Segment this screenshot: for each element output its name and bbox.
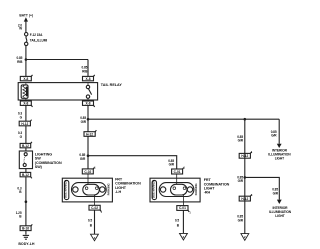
svg-text:B-16: B-16 xyxy=(22,227,29,231)
wire fuse to junction xyxy=(25,46,27,77)
svg-text:G/R: G/R xyxy=(273,191,279,195)
connector X-8 bottom-right xyxy=(83,101,94,105)
svg-text:G/R: G/R xyxy=(238,139,244,143)
svg-text:SIDE MARKER: SIDE MARKER xyxy=(151,180,155,198)
wire to ground RH light xyxy=(182,210,184,233)
connector X-8 top-left xyxy=(20,76,31,80)
svg-text:H-12: H-12 xyxy=(21,122,28,126)
wire branch to RH light xyxy=(88,156,177,169)
wire right corner down to arrow 1 xyxy=(278,119,280,144)
ground triangle LH light xyxy=(91,234,99,241)
ground BODY-LH xyxy=(25,231,27,235)
connector C-01 top xyxy=(172,169,183,174)
svg-text:LIGHT: LIGHT xyxy=(275,156,284,160)
relay switch xyxy=(86,85,89,88)
connector C-02 top xyxy=(82,169,93,174)
fuse F-12 xyxy=(25,33,28,36)
svg-text:R/B: R/B xyxy=(17,60,23,64)
wire B-12 to B-16 with junction xyxy=(25,177,27,226)
connector B-12 lower xyxy=(20,172,31,176)
ground triangle RH light xyxy=(180,233,188,240)
svg-text:X-8: X-8 xyxy=(86,102,91,106)
connector H-12 left xyxy=(19,121,30,126)
connector H-12 middle xyxy=(84,132,95,137)
wire X-8 br down to H-12 xyxy=(87,105,89,131)
connector C-02 bottom xyxy=(89,205,100,210)
svg-text:PARKING: PARKING xyxy=(106,183,110,195)
svg-text:BATT (+): BATT (+) xyxy=(19,13,33,17)
connector H-12 right upper xyxy=(239,153,250,158)
svg-text:X-8: X-8 xyxy=(86,77,91,81)
arrow interior illumination 1 xyxy=(277,144,282,148)
svg-text:G/R: G/R xyxy=(81,120,87,124)
wire switch to B-12 lower xyxy=(25,169,27,173)
svg-text:TAIL RELAY: TAIL RELAY xyxy=(101,83,123,87)
wire relay to H-12 (left) xyxy=(25,105,27,121)
node BATT(+) arrow xyxy=(24,17,28,21)
svg-text:SW): SW) xyxy=(35,165,43,169)
svg-text:H-12: H-12 xyxy=(241,197,248,201)
ground triangle right column xyxy=(241,234,249,241)
svg-text:C-02: C-02 xyxy=(91,206,98,210)
wire to ground LH light xyxy=(94,210,96,234)
connector B-16 xyxy=(20,226,31,231)
relay TAIL RELAY box xyxy=(18,83,97,100)
lamp FRT COMBINATION LIGHT RH box xyxy=(150,178,200,202)
wire B-12 to switch xyxy=(25,148,27,151)
svg-text:B-12: B-12 xyxy=(22,173,29,177)
node junction dot right column xyxy=(244,118,247,121)
svg-text:LIGHT: LIGHT xyxy=(275,214,284,218)
wire RH label branch xyxy=(176,168,178,170)
svg-text:-LH: -LH xyxy=(115,190,121,194)
node junction dot left xyxy=(25,200,28,203)
svg-text:G/R: G/R xyxy=(169,163,175,167)
wire long horizontal feed y=119 xyxy=(88,118,279,120)
svg-text:R/B: R/B xyxy=(82,69,88,73)
svg-text:B-12: B-12 xyxy=(22,144,29,148)
wire drop to X-8 top right xyxy=(87,60,89,77)
svg-text:0.5: 0.5 xyxy=(88,218,92,222)
svg-text:G/R: G/R xyxy=(271,134,277,138)
svg-text:W: W xyxy=(19,26,22,30)
svg-text:4: 4 xyxy=(183,235,185,239)
lamp FRT COMBINATION LIGHT LH box xyxy=(62,178,112,202)
svg-text:C-01: C-01 xyxy=(174,170,181,174)
svg-text:H-12: H-12 xyxy=(241,154,248,158)
svg-text:0.5: 0.5 xyxy=(175,218,179,222)
svg-text:H-12: H-12 xyxy=(86,132,93,136)
svg-text:C-02: C-02 xyxy=(84,170,91,174)
connector X-8 top-right xyxy=(83,76,94,80)
svg-text:F-12 15A: F-12 15A xyxy=(30,33,43,37)
wire H-12 to C-02 xyxy=(87,136,89,169)
connector B-12 upper xyxy=(20,143,31,147)
svg-text:SIDE MARKER: SIDE MARKER xyxy=(64,180,68,198)
wire branch to arrow 2 xyxy=(245,177,279,199)
svg-text:TAIL,ILLUMI: TAIL,ILLUMI xyxy=(30,38,47,42)
svg-text:BODY-LH: BODY-LH xyxy=(18,242,35,246)
connector X-8 bottom-left xyxy=(20,101,31,105)
svg-text:G/R: G/R xyxy=(238,179,244,183)
svg-text:G/R: G/R xyxy=(238,218,244,222)
lighting switch box xyxy=(19,151,32,169)
node junction dot xyxy=(25,58,28,61)
wire H-12 to B-12 xyxy=(25,126,27,144)
node T junction dot xyxy=(87,118,90,121)
svg-text:X-8: X-8 xyxy=(23,77,28,81)
svg-text:2: 2 xyxy=(244,235,246,239)
svg-text:X-8: X-8 xyxy=(23,102,28,106)
relay coil xyxy=(21,85,28,98)
wire batt to fuse xyxy=(25,21,27,33)
svg-text:C-01: C-01 xyxy=(179,206,186,210)
arrow interior illumination 2 xyxy=(277,200,282,204)
connector C-01 bottom xyxy=(177,206,188,211)
svg-text:PARKING: PARKING xyxy=(194,183,198,195)
svg-text:-RH: -RH xyxy=(204,191,211,195)
node junction dot right lower xyxy=(244,176,247,179)
wire horizontal to relay right xyxy=(26,59,88,61)
wire right column down xyxy=(244,119,246,233)
svg-text:4: 4 xyxy=(94,236,96,240)
connector H-12 right lower xyxy=(239,196,250,201)
svg-text:G/R: G/R xyxy=(80,157,86,161)
node junction dot to RH branch xyxy=(87,154,90,157)
